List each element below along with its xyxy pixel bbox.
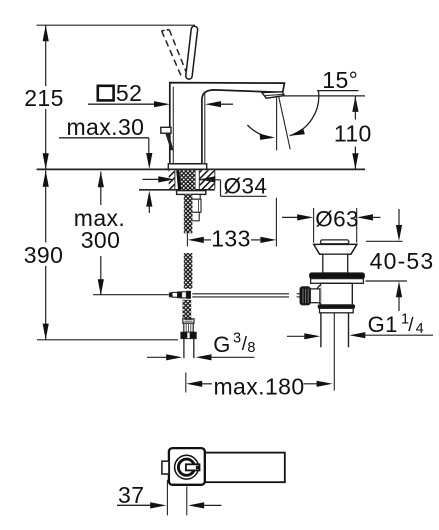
hose nut ridged [184,323,193,332]
leader arrow down to countertop surface [148,138,150,156]
svg-text:52: 52 [116,80,142,106]
svg-text:300: 300 [81,227,121,253]
svg-text:G1: G1 [368,312,398,337]
svg-text:3: 3 [233,331,241,347]
drain step lower [320,308,354,313]
angle arc right with arrow [290,91,319,136]
pull rod through countertop [176,170,181,190]
mounting washer under countertop [177,191,206,195]
countertop cross-section hatch left [169,170,175,189]
pop-up rod clamp [169,293,172,297]
water stream vertical reference line [276,98,278,151]
svg-text:133: 133 [211,225,251,251]
drain centerline [333,313,335,391]
dimension 37 [166,480,168,516]
mounting nut [192,194,200,199]
label G3/8 with arrows [147,356,167,358]
extension line: bottom of supply hose (390 reference) [37,339,178,341]
pop-up rod horizontal right segment [192,293,289,295]
rod clamp knob on drain [300,287,310,305]
dimension diameter-63 arrows [282,216,299,218]
drain bottom step (dark) [318,305,354,308]
dimension diameter-34 arrows [143,178,161,180]
extension lines for diameter 63 [313,208,315,243]
rod clamp connector [310,289,320,303]
extension line from aerator for 110 [283,95,365,97]
top view outer circle [175,455,199,479]
svg-text:4: 4 [416,321,424,337]
leader arrow up to countertop underside [146,191,152,207]
supply hose lower section [183,300,192,319]
lever handle (closed position) [185,26,198,80]
svg-text:max.30: max.30 [67,114,145,140]
label G1-1/4 with leader [304,333,320,339]
drain body bell [316,285,321,304]
label diameter 34 [220,180,222,197]
threaded shank through countertop [180,170,196,190]
svg-text:Ø63: Ø63 [315,207,359,232]
svg-text:Ø34: Ø34 [224,173,268,198]
drain flange cap [314,244,357,254]
angle arc left with arrow [247,125,272,138]
top view pull-rod tab [162,461,169,474]
svg-text:max.180: max.180 [214,373,305,399]
countertop surface line [37,168,365,170]
leader line with arrows for 52 width [88,103,156,105]
faucet body and spout outline [170,83,285,164]
svg-text:40-53: 40-53 [370,248,435,274]
dimension max.180 horizontal [185,373,187,393]
svg-text:110: 110 [334,121,372,147]
supply hose upper section [184,194,193,233]
dimension 215 vertical line [45,25,47,86]
top view slot [186,464,200,470]
svg-text:8: 8 [247,340,255,356]
base plate of faucet [168,164,206,170]
pop-up rod horizontal left segment [93,294,169,296]
top view inner ring [178,459,194,475]
drain neck [323,254,348,273]
water stream 15-degree line [279,97,290,149]
svg-text:215: 215 [24,85,64,111]
dimension max.300 vertical line [98,171,104,187]
hose collar [183,319,194,323]
drain clamp ring lower [311,279,364,284]
lever handle dashed (open position) [162,31,182,78]
top view body square [169,448,205,485]
body edge lines [172,87,174,164]
dimension 110 vertical line [352,96,358,112]
hose connector block [192,199,201,212]
drain lift knob [321,240,349,244]
svg-text:37: 37 [118,482,144,508]
extension line: top of lever (215 reference) [37,24,195,26]
pull-rod knob on body [161,127,171,133]
svg-text:G: G [213,332,231,357]
drain clamp ring upper (dark) [310,273,365,279]
dimension square-52 label [98,86,114,101]
hose end tube [183,339,185,359]
svg-text:15°: 15° [322,67,358,93]
supply hose middle section [184,253,193,289]
extension line from spout outlet for 133 [275,198,277,247]
drain tailpipe G1-1/4 [320,313,322,348]
aerator at spout tip [262,92,285,98]
svg-text:390: 390 [24,242,64,268]
top view lever [205,453,285,483]
hose end nut G3/8 [181,332,196,338]
drain body [321,283,353,305]
countertop underside line [139,189,215,191]
dimension 133 horizontal line [186,234,188,247]
dimension 390 vertical line [45,171,47,243]
svg-text:/: / [408,315,414,336]
countertop cross-section hatch right [199,170,215,189]
dimension 40-53 vertical [398,209,400,227]
